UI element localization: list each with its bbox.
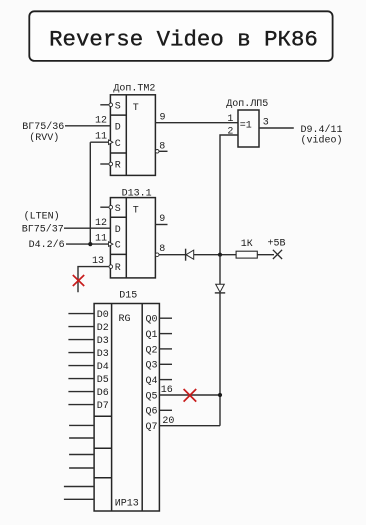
diode VD1 (cathode left) [186, 249, 194, 261]
svg-text:ИР13: ИР13 [115, 499, 139, 510]
wire Q3 stub [159, 363, 172, 365]
svg-text:Q3: Q3 [146, 361, 158, 372]
wire aux stub 5 [64, 486, 94, 488]
svg-text:D3: D3 [97, 349, 109, 360]
svg-text:D0: D0 [97, 310, 109, 321]
junction on C bus [88, 242, 92, 246]
svg-text:=1: =1 [240, 120, 252, 131]
title box [29, 11, 332, 61]
wire aux stub 1 [69, 424, 94, 426]
xor gate U2 Доп.ЛП5 body [238, 110, 259, 147]
svg-text:9: 9 [160, 112, 166, 123]
wire resistor to +5V [257, 254, 274, 256]
wire diode to resistor [194, 254, 236, 256]
svg-text:D2: D2 [97, 323, 109, 334]
red X cut mark on Q5 wire [184, 389, 197, 402]
U1 /Q bubble [155, 150, 159, 154]
svg-text:D: D [115, 122, 121, 133]
wire U1 Q to U2 pin1 [155, 122, 238, 124]
wire D4 stub [68, 365, 94, 367]
wire node down to diode VD2 [219, 255, 221, 285]
svg-text:(video): (video) [301, 135, 343, 147]
wire U3 Q stub [155, 224, 167, 226]
svg-text:Q1: Q1 [146, 330, 158, 341]
svg-text:13: 13 [92, 256, 104, 267]
wire D7 stub [68, 404, 94, 406]
wire ВГ75/37 to U3 D [64, 227, 110, 229]
wire Q4 stub [159, 379, 172, 381]
wire Q5 to node [159, 394, 220, 396]
svg-text:9: 9 [159, 214, 165, 225]
svg-text:D4.2/6: D4.2/6 [29, 239, 65, 251]
svg-text:12: 12 [95, 218, 107, 229]
wire Q2 stub [159, 348, 172, 350]
svg-text:Доп.ТМ2: Доп.ТМ2 [113, 84, 155, 95]
svg-text:Reverse Video в РК86: Reverse Video в РК86 [49, 27, 318, 53]
svg-text:D9.4/11: D9.4/11 [301, 124, 343, 136]
svg-text:Q0: Q0 [146, 315, 158, 326]
wire ВГ75/36 to U1 D [65, 125, 110, 127]
svg-text:Q5: Q5 [146, 391, 158, 402]
wire U3 /Q to diode [159, 254, 186, 256]
register U4 D15 body [94, 304, 159, 512]
svg-text:RG: RG [119, 314, 131, 325]
wire Q6 stub [159, 409, 172, 411]
wire VD2 down to Q7 [219, 293, 221, 426]
svg-text:S: S [115, 204, 121, 215]
svg-text:C: C [115, 241, 121, 252]
wire D3 stub [68, 339, 94, 341]
svg-text:3: 3 [263, 118, 269, 129]
svg-text:D15: D15 [119, 290, 137, 301]
wire vertical C bus [89, 142, 91, 244]
U3 pin S bubble [109, 205, 113, 209]
U1 pin S stub [100, 104, 109, 106]
svg-text:Q6: Q6 [146, 407, 158, 418]
svg-text:Q2: Q2 [146, 345, 158, 356]
wire Q7 to node [159, 425, 220, 427]
svg-text:(RVV): (RVV) [29, 132, 59, 144]
svg-text:11: 11 [95, 234, 107, 245]
U1 pin C edge triangle [109, 140, 113, 145]
svg-text:12: 12 [95, 116, 107, 127]
svg-text:Q7: Q7 [146, 422, 158, 433]
svg-text:D3: D3 [97, 336, 109, 347]
svg-text:T: T [133, 205, 139, 216]
svg-text:T: T [133, 103, 139, 114]
wire D0 stub [68, 313, 94, 315]
junction Q5 node [218, 393, 222, 397]
wire U3 R [78, 267, 109, 293]
U1 pin S bubble [109, 103, 113, 107]
wire aux stub 3 [69, 454, 94, 456]
red X cut mark on R wire [73, 275, 84, 286]
svg-text:ВГ75/37: ВГ75/37 [22, 224, 64, 236]
svg-text:1К: 1К [241, 239, 253, 250]
wire D2 stub [68, 326, 94, 328]
wire D4.2/6 to U3 C [66, 243, 109, 245]
wire D6 stub [68, 391, 94, 393]
svg-text:8: 8 [159, 244, 165, 255]
diode VD2 (pointing down) [215, 284, 225, 293]
svg-text:1: 1 [227, 114, 233, 125]
resistor R1 1K body [236, 251, 257, 258]
svg-text:(LTEN): (LTEN) [24, 211, 60, 223]
U3 pin R bubble [109, 265, 113, 269]
svg-text:D7: D7 [97, 401, 109, 412]
svg-text:Q4: Q4 [146, 376, 158, 387]
wire aux stub 4 [69, 467, 94, 469]
svg-text:D: D [115, 225, 121, 236]
U3 pin S stub [100, 206, 109, 208]
svg-text:D6: D6 [97, 388, 109, 399]
svg-text:11: 11 [95, 132, 107, 143]
svg-text:+5В: +5В [268, 238, 286, 249]
wire U2 pin2 [220, 135, 238, 255]
svg-text:R: R [115, 263, 121, 274]
U1 pin R bubble [109, 162, 113, 166]
+5В connector X [273, 250, 282, 259]
wire U2 out [259, 127, 294, 129]
flip-flop U1 Доп.ТМ2 body [110, 95, 155, 176]
svg-text:R: R [115, 161, 121, 172]
wire to U1 C [90, 141, 108, 143]
wire aux stub 2 [69, 437, 94, 439]
svg-text:S: S [115, 101, 121, 112]
wire aux stub 6 [64, 498, 94, 500]
flip-flop U3 D13.1 body [110, 198, 155, 278]
svg-text:Доп.ЛП5: Доп.ЛП5 [226, 99, 268, 110]
svg-text:D4: D4 [97, 362, 109, 373]
svg-text:2: 2 [227, 126, 233, 137]
svg-text:C: C [115, 139, 121, 150]
svg-text:D5: D5 [97, 375, 109, 386]
wire Q1 stub [159, 333, 172, 335]
U3 pin C edge triangle [109, 242, 113, 247]
U3 /Q bubble [155, 253, 159, 257]
wire D5 stub [68, 378, 94, 380]
junction main node [218, 253, 222, 257]
wire U1 /Q stub [159, 150, 168, 152]
wire Q0 stub [159, 317, 172, 319]
U1 pin R stub [100, 163, 109, 165]
svg-text:ВГ75/36: ВГ75/36 [22, 121, 64, 133]
wire D3b stub [68, 352, 94, 354]
